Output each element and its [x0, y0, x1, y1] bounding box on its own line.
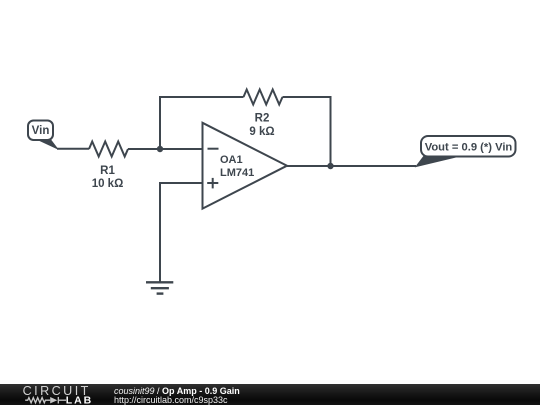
ground — [146, 281, 173, 283]
svg-text:10 kΩ: 10 kΩ — [92, 178, 124, 190]
wire Vin tail to R1 — [57, 148, 89, 150]
output node junction dot — [327, 163, 333, 169]
svg-text:Vin: Vin — [32, 125, 50, 137]
resistor R2 — [244, 90, 283, 105]
svg-text:Vout = 0.9 (*) Vin: Vout = 0.9 (*) Vin — [425, 142, 513, 154]
wire R1 to op-amp inverting input — [128, 148, 203, 150]
svg-text:R1: R1 — [100, 165, 115, 177]
wire feedback vertical from node A — [160, 97, 244, 149]
op-amp minus pin symbol — [208, 148, 219, 150]
svg-text:9 kΩ: 9 kΩ — [249, 126, 274, 138]
op-amp plus pin symbol — [207, 182, 218, 184]
svg-text:LAB: LAB — [66, 394, 94, 405]
resistor R1 — [89, 142, 128, 157]
svg-text:OA1: OA1 — [220, 154, 243, 166]
op-amp U1 triangle — [203, 123, 288, 209]
footer bar — [0, 384, 540, 405]
svg-text:R2: R2 — [255, 113, 270, 125]
wire R2 to output node — [283, 97, 331, 166]
wire op-amp output — [287, 165, 416, 167]
CircuitLab logo — [0, 384, 110, 405]
node Vout flag — [416, 156, 458, 167]
node Vin flag — [37, 139, 58, 149]
wire non-inverting input — [160, 183, 203, 282]
node A junction dot — [157, 146, 163, 152]
svg-text:LM741: LM741 — [220, 167, 254, 179]
